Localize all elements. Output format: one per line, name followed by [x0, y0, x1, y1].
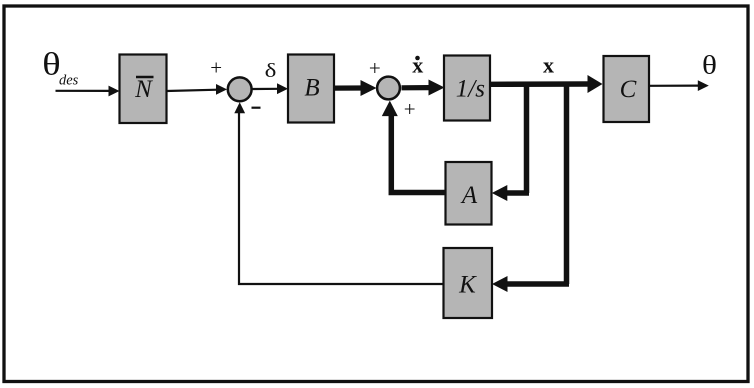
wire B to S2 (thick)	[334, 80, 377, 96]
node branch to K (thick vertical)	[564, 82, 570, 285]
summing junction S1	[228, 77, 252, 101]
svg-text:1/s: 1/s	[456, 76, 485, 103]
svg-text:+: +	[210, 56, 222, 80]
svg-text:+: +	[404, 97, 416, 121]
summing junction S2	[377, 77, 400, 100]
wire N1 to S1	[167, 84, 228, 95]
svg-text:θ: θ	[42, 46, 60, 81]
wire K output to S1 (thin, left then up)	[234, 102, 443, 284]
wire A output to S2 (thick, left then up)	[382, 101, 446, 193]
svg-text:C: C	[620, 76, 637, 103]
wire S1 to B	[253, 83, 289, 94]
block K	[444, 248, 493, 318]
svg-text:A: A	[460, 182, 478, 209]
svg-text:B: B	[304, 75, 319, 102]
wire C to output	[649, 80, 709, 91]
wire S2 to block 1/s (thick)	[402, 80, 445, 96]
node branch to A (thick vertical)	[524, 82, 530, 194]
label theta_des	[42, 46, 78, 88]
label minus S1	[252, 107, 261, 109]
svg-text:N: N	[134, 76, 153, 103]
label x-dot	[412, 53, 423, 78]
wire 1/s to C (thick)	[490, 75, 603, 93]
block N1 (N-bar)	[120, 55, 167, 124]
block C	[604, 56, 650, 122]
block B	[288, 55, 334, 123]
block 1/s	[444, 56, 490, 121]
svg-text:des: des	[59, 73, 79, 89]
wire input arrow	[56, 86, 120, 97]
svg-text:x: x	[543, 53, 554, 78]
svg-text:θ: θ	[702, 51, 717, 80]
svg-text:K: K	[458, 272, 477, 299]
block A	[446, 162, 492, 225]
wire branch into A (thick)	[492, 185, 529, 201]
svg-text:+: +	[369, 56, 381, 80]
wire branch into K (thick)	[492, 276, 569, 292]
svg-text:δ: δ	[265, 59, 277, 81]
